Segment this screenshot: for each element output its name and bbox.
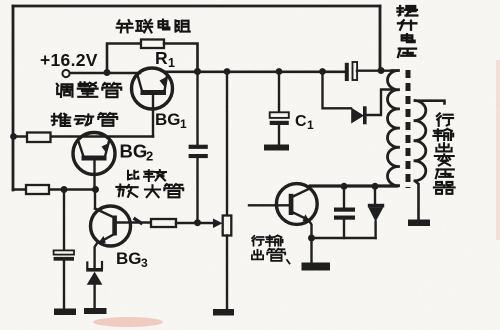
potentiometer (sampling divider) bbox=[223, 216, 232, 236]
svg-text:BG: BG bbox=[120, 141, 148, 162]
node junction damper diode bbox=[372, 183, 379, 190]
label 提升电压 (boost voltage) vertical bbox=[398, 6, 418, 16]
wire collector rail to transformer bottom bbox=[310, 185, 397, 188]
capacitor (filter, lower left) bbox=[54, 250, 74, 260]
node junction transformer top bbox=[378, 67, 385, 74]
label 行输出管 row2 bbox=[252, 250, 263, 260]
wire R1 right leg bbox=[164, 44, 198, 72]
wire boost cap to transformer-top junction bbox=[357, 69, 394, 71]
transformer core (dashed) bbox=[406, 70, 411, 188]
node junction on left rail at BG2 collector row bbox=[10, 133, 17, 140]
wire filter cap branch bbox=[63, 190, 65, 251]
diode (boost rectifier) bbox=[351, 106, 366, 124]
wire zener to ground bbox=[93, 285, 95, 308]
resistor (BG2 collector feed) bbox=[27, 133, 51, 143]
wire left vertical rail bbox=[12, 6, 15, 190]
transistor Q4 (horizontal output 行输出管) bbox=[276, 184, 317, 238]
svg-text:3: 3 bbox=[141, 256, 148, 270]
transistor BG3 (comparison amplifier 比较放大管) bbox=[91, 206, 131, 246]
transformer primary winding (left) bbox=[388, 71, 399, 186]
wire C1 branch bbox=[278, 72, 280, 113]
svg-text:1: 1 bbox=[180, 117, 187, 131]
zener diode (reference) bbox=[86, 262, 103, 285]
label 推动管 (driver transistor) bbox=[52, 114, 70, 126]
diode (damper) bbox=[368, 204, 384, 222]
wire emitter row bbox=[312, 237, 376, 239]
label 调整管 (regulator transistor) bbox=[57, 84, 73, 97]
label 行输出管 (horizontal output transistor) row1 bbox=[252, 236, 264, 246]
wire lower-left horizontal to BG2 base node bbox=[13, 188, 96, 191]
node junction filter-cap tap on lower-left wire bbox=[61, 186, 68, 193]
svg-text:2: 2 bbox=[146, 149, 153, 164]
wire base lead of output transistor bbox=[249, 204, 289, 206]
ground (under output transistor) bbox=[302, 263, 331, 271]
transistor BG1 (series regulator 调整管) bbox=[132, 68, 173, 137]
wire from +16.2V terminal to BG1 collector bbox=[70, 72, 140, 75]
resistor (lower left, base bias) bbox=[26, 185, 49, 194]
wire damper cap bottom lead bbox=[343, 220, 345, 238]
wire diode to winding tap bbox=[367, 90, 391, 116]
wire potentiometer branch from rail bbox=[226, 72, 228, 216]
wire BG2 collector row bbox=[13, 135, 153, 138]
node junction emitter bbox=[308, 235, 315, 242]
capacitor (boost, in series with rail) bbox=[345, 62, 357, 81]
svg-text:R: R bbox=[155, 48, 168, 68]
wiper arrow into potentiometer bbox=[213, 219, 223, 229]
wire sampling cap branch (from output rail) bbox=[196, 72, 198, 145]
ground (under secondary winding) bbox=[408, 220, 430, 227]
node junction R1 right leg / sampling cap branch bbox=[194, 68, 201, 75]
wire boost diode branch bbox=[323, 72, 352, 109]
label 并联电阻 (parallel resistor) bbox=[117, 20, 133, 32]
ground (under filter cap) bbox=[54, 309, 76, 316]
wire potentiometer to ground bbox=[226, 236, 228, 309]
wire secondary bottom to ground bbox=[415, 181, 419, 219]
resistor R1 bbox=[141, 40, 164, 49]
wire BG3 base to resistor bbox=[117, 221, 151, 223]
svg-text:BG: BG bbox=[155, 110, 181, 129]
capacitor (damper / retrace) bbox=[334, 208, 355, 220]
node junction BG2 base / BG3 collector bbox=[92, 186, 99, 193]
capacitor C1 bbox=[270, 112, 289, 125]
terminal +16.2V input bbox=[62, 70, 69, 77]
node junction sampling cap on wiper wire bbox=[194, 219, 201, 226]
wire transformer primary bottom to output rail bbox=[310, 184, 399, 187]
svg-text:C: C bbox=[295, 113, 307, 130]
comma mark after 管 bbox=[287, 260, 290, 264]
capacitor (speed-up, middle) bbox=[189, 145, 208, 158]
wire cap to ground bbox=[63, 261, 65, 308]
wire damper diode bottom lead bbox=[374, 222, 376, 238]
wire damper cap top lead bbox=[343, 186, 345, 207]
label 放大管 (amplifier transistor) bbox=[116, 185, 137, 197]
wire top rail from transformer top across the page bbox=[13, 5, 380, 8]
svg-text:1: 1 bbox=[307, 118, 314, 132]
wire resistor to potentiometer wiper bbox=[176, 222, 214, 224]
node junction potentiometer branch bbox=[224, 68, 231, 75]
node junction damper cap bbox=[341, 183, 348, 190]
ground (under zener) bbox=[84, 308, 107, 314]
svg-text:BG: BG bbox=[116, 249, 142, 268]
node junction boost diode branch bbox=[319, 68, 326, 75]
junction blob on BG3 base wire bbox=[135, 219, 141, 223]
wire BG3 emitter to zener bbox=[95, 243, 98, 268]
wire secondary top lead bbox=[415, 101, 445, 104]
wire R1 left leg bbox=[107, 44, 141, 73]
ground (under potentiometer) bbox=[213, 309, 234, 316]
label 行输出变压器 (horizontal output transformer) vertical bbox=[437, 113, 453, 126]
transformer secondary winding (right) bbox=[415, 101, 426, 181]
ground (under C1) bbox=[264, 145, 289, 151]
wire main output rail right of BG1 bbox=[164, 71, 345, 74]
wire top-right vertical (from top rail) bbox=[379, 6, 382, 70]
svg-text:+16.2V: +16.2V bbox=[40, 50, 98, 70]
node junction R1 left leg on input rail bbox=[104, 69, 111, 76]
transistor BG2 (driver 推动管) bbox=[73, 133, 115, 190]
resistor (BG3 base, sampling) bbox=[151, 219, 176, 227]
wire damper diode top lead bbox=[374, 186, 376, 204]
node junction C1 branch bbox=[276, 68, 283, 75]
label 比较 (comparison) bbox=[128, 171, 139, 180]
wire cap down to wiper wire bbox=[196, 158, 198, 223]
wire C1 to ground bbox=[278, 125, 280, 144]
wire BG3 collector from BG2 base node bbox=[94, 190, 96, 209]
svg-text:1: 1 bbox=[168, 56, 175, 70]
wire emitter to ground bbox=[310, 238, 312, 262]
